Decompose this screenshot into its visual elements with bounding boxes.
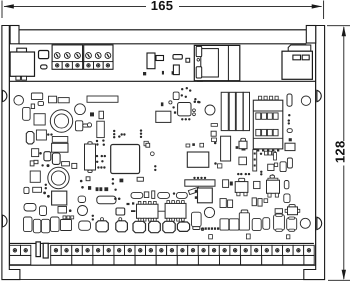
mounting hole H1 [301,96,310,105]
component U8 [285,143,295,150]
capacitor C17 [280,162,286,172]
pad [177,194,179,196]
resistor array RN1 [87,96,118,102]
RJ45 jack outline [194,45,240,80]
transistor Q2 pin [244,192,247,195]
pad [96,140,98,142]
capacitor C51 [40,206,47,216]
terminal group box [262,255,283,264]
left connector block tab [17,48,27,52]
left DIN rail [2,26,20,280]
relay pin [195,190,198,193]
pad [176,200,178,202]
pad [211,227,213,229]
capacitor C9 [287,94,292,106]
pad [88,186,91,190]
mounting hole H2 [300,218,310,228]
pad [101,155,103,157]
component C16 [268,164,274,170]
pad [101,160,103,162]
pad [193,177,195,179]
connector J2 pin 3 [270,96,273,100]
component [218,164,222,168]
pad [217,227,219,229]
transistor Q2 [235,182,248,193]
terminal T9 [114,245,125,255]
diode D1 pin [83,124,91,127]
top strip component square [173,65,179,75]
component [144,192,149,198]
pad [254,165,256,167]
terminal block X1 [52,45,83,69]
pad [104,187,108,191]
toroid inductor L6 inner [51,171,65,185]
pad [289,138,292,141]
dimension 128 extension line top [327,25,350,27]
diode D6 [24,204,36,212]
pad left of RJ45 [186,58,190,62]
pad [230,182,233,186]
dimension 128 extension line bottom [328,279,350,281]
left rail clip notch lower [2,215,7,227]
component R2 [99,111,104,119]
terminal T21 [240,245,251,255]
fuse holder [39,51,49,59]
pad [277,149,279,151]
pad [214,142,217,145]
pad [185,118,187,120]
capacitor C35 flange [193,227,200,230]
right rail clip notch upper [317,90,321,101]
crystal Y1 [85,144,96,170]
terminal square [62,62,72,70]
power connector lip [288,45,311,51]
capacitor C30 [149,221,161,232]
capacitor C37 [220,219,229,230]
pad [288,114,290,116]
wire U9-U10 [158,210,165,212]
terminal square [52,62,62,70]
capacitor C52 [78,206,88,216]
pad [188,118,190,120]
pad [181,88,183,90]
toroid inductor L1 outer [50,110,72,132]
top left tab [10,26,19,44]
terminal group box [241,255,262,264]
wire stub to U9 [131,210,135,212]
dimension 165 arrow left [4,4,14,8]
pad [260,173,262,175]
DIP switch 8 [273,129,278,135]
pad [114,198,117,201]
resistor R4 [137,177,143,181]
transistor Q3 lip [268,178,278,180]
capacitor C1 [14,96,24,106]
pad [237,173,239,175]
pad [69,209,72,212]
test point TP1 [87,123,91,127]
pad [47,195,50,198]
terminal T3 [51,245,62,255]
diode D5 [176,192,187,198]
pad [173,192,175,194]
inductor L2 [34,114,45,125]
transistor Q4 [288,207,298,215]
svg-text:165: 165 [151,0,174,13]
right DIN rail [304,26,325,280]
pad [81,186,84,189]
relay K0 coil [31,93,42,100]
jumper bar 1 [36,242,40,257]
dimension 128 arrow down [342,270,346,280]
transistor Q3 pin [268,193,271,197]
DIP switch 1 [256,113,261,119]
pad [264,199,268,203]
right rail clip notch lower [317,217,322,229]
pad [267,149,269,151]
RJ45 inner opening [201,49,219,77]
pad [99,187,102,191]
capacitor C4 [75,104,86,115]
diode D4 [158,192,170,198]
pad [197,101,200,104]
inductor L3 [36,130,46,140]
component C49 [72,163,77,168]
pad [127,203,130,205]
pad [50,133,52,135]
dimension 165 arrow right [312,4,322,8]
transistor Q1 tab [241,138,246,141]
pad [181,118,183,120]
terminal T7 [93,245,104,255]
pad [100,166,102,168]
terminal T20 [230,245,241,255]
terminal T5 [72,245,83,255]
capacitor C23 [41,219,49,233]
terminal T26 [293,245,304,255]
DIP switch 3 [267,113,272,119]
pin [246,234,250,239]
relay pin [195,196,198,199]
pad above U7 [186,144,190,147]
pad [140,133,142,135]
terminal group box [72,255,93,264]
crystal tab [88,170,92,173]
dimension 128 line [343,27,345,141]
terminal group box [304,255,314,264]
crystal tab [88,142,92,145]
resistor R14 [33,187,42,192]
capacitor C5 [23,107,31,120]
pad [272,151,275,155]
terminal group box [177,255,198,264]
pad [140,129,142,131]
heatsink HS1 fin 4 [243,92,249,130]
terminal T24 [272,245,283,255]
IC U3 [156,111,171,122]
pad [30,161,34,166]
pad [92,218,94,220]
terminal group box [114,255,135,264]
transformer T2 [52,191,67,205]
terminal T19 [219,245,230,255]
RJ45 divider [227,45,229,80]
pad [132,202,134,204]
terminal square [94,62,104,70]
capacitor C42 [263,218,270,230]
pad [204,177,206,179]
pad [245,173,247,175]
pad [96,161,98,163]
RJ45 foot [197,79,202,82]
pad [193,113,196,116]
pin [101,218,104,221]
pad beside C35 [201,228,204,231]
pad [104,155,106,157]
capacitor C43 flange top [276,214,283,216]
capacitor C32 [177,222,189,231]
pad [185,96,187,98]
pad [214,162,217,165]
pad [118,198,121,201]
terminal group box left [10,255,31,264]
top strip pad [143,72,146,75]
capacitor C45 [287,218,297,230]
diode D3 [131,192,143,198]
capacitor C47 [44,152,51,161]
pad [96,187,99,191]
pad [114,189,116,191]
terminal T15 [177,245,188,255]
pad [202,227,204,229]
pad [67,216,70,219]
pad [80,180,83,183]
capacitor C14 [220,199,226,208]
terminal group box [283,255,304,264]
DIP switch 4 [273,113,278,119]
pad [254,153,256,155]
RJ45 latch tab lower [196,67,202,78]
component R9 [258,199,262,207]
capacitor C31 [163,221,175,232]
terminal T4 [61,245,72,255]
component C2 [31,104,34,109]
pad [90,112,94,116]
terminal T17 [198,245,209,255]
terminal group box [93,255,114,264]
terminal T13 [156,245,167,255]
terminal T2 [21,245,31,255]
left connector block feet [16,76,21,80]
component R15 [58,207,67,214]
capacitor C19 [284,181,289,189]
optocoupler U9 [137,201,159,221]
pad [92,215,94,217]
terminal T16 [188,245,199,255]
bottom plate edge [20,279,304,281]
pad [154,165,156,167]
resistor R6 [211,124,217,127]
test point TP2 [169,101,172,104]
pad [39,152,42,155]
capacitor C39 [239,213,249,230]
capacitor C45 flange top [289,217,295,219]
transistor Q4 tab [289,205,295,208]
screw terminal circle [86,53,92,59]
pad left of Q1 [236,146,239,149]
terminal group box [135,255,156,264]
pad [154,169,156,171]
component C3 [38,102,43,106]
dimension 165 line [4,5,146,7]
component C13 [254,181,260,188]
pad [112,178,114,180]
pad [208,227,210,229]
DIP switch 2 [262,113,267,119]
capacitor C43 flange bottom [276,229,283,231]
capacitor C53 [116,208,125,215]
component C10 [211,131,216,136]
svg-text:128: 128 [333,141,348,164]
fuse label [41,65,47,69]
pad [102,139,104,141]
RJ45 latch tab upper [196,46,202,56]
top strip pad [162,71,164,75]
pad [262,149,264,151]
Q4 pin left [285,209,287,212]
DIP switch block S1 [253,100,282,149]
inductor L4 [97,196,116,204]
top strip pad [172,71,175,74]
pad [254,159,256,161]
terminal group box [198,255,219,264]
capacitor C15 [228,200,233,208]
component [152,191,155,199]
toroid inductor L6 outer [48,167,69,188]
top right tab [306,26,315,44]
pad [113,133,115,135]
top strip divider [19,43,306,45]
pad [146,143,150,147]
inductor L5 [30,171,40,182]
pad [71,216,74,219]
pad [96,143,98,145]
pad [172,106,174,108]
pad [112,182,114,184]
pad [47,164,50,167]
jumper bar 2 [43,243,48,258]
pad above U7 [192,143,195,146]
transistor Q3 pin [275,193,278,197]
capacitor C18 [287,158,292,168]
component R8 [252,198,256,206]
screw terminal circle [105,53,111,59]
top strip component small [156,56,164,61]
power connector block [282,51,312,79]
pad [123,133,125,135]
terminal T11 [135,245,146,255]
power connector window 2 [302,55,309,60]
capacitor C25 [61,220,72,231]
pad [205,227,207,229]
terminal group box [220,255,241,264]
capacitor C20 [284,194,290,203]
pad [194,98,196,100]
capacitor C36 [204,207,214,217]
capacitor C35 [192,212,202,227]
pad [97,166,99,168]
pad [63,216,66,219]
diode D1 [76,121,83,131]
capacitor C26 [79,221,91,230]
DIP block dividers [253,110,282,112]
screw terminal circle [95,53,101,59]
left connector block [10,52,34,76]
terminal T12 [146,245,157,255]
capacitor C40 [252,219,261,231]
capacitor C43 [274,215,285,230]
pad [274,163,277,167]
pad [214,227,216,229]
terminal T14 [167,245,178,255]
pad [96,155,98,157]
capacitor C38 [229,219,239,230]
terminal T8 [103,245,114,255]
component U2 [49,96,57,103]
transistor Q2 tab [239,178,245,181]
heatsink HS1 fin 3 [236,92,243,130]
pad [274,153,277,160]
capacitor C6 [97,121,105,137]
relay K1 [198,188,213,203]
pad [248,173,250,175]
capacitor C22 [33,219,41,233]
pad [260,171,262,173]
pad [161,102,164,106]
top strip component vertical [147,53,155,69]
pad [189,89,191,91]
pad [45,184,47,186]
pad [120,179,124,183]
capacitor C11 [221,136,231,161]
connector J2 pin 1 [259,96,262,100]
pad [113,130,115,132]
pad Q0 [86,177,90,181]
component C12 [223,180,229,188]
capacitor C50 [24,187,29,193]
component [34,160,38,163]
diode D7 [78,196,86,202]
capacitor C39 flange [241,210,248,213]
screw terminal circle [75,53,81,59]
capacitor C21 [24,217,33,232]
microcontroller U1 [111,145,140,174]
pad [121,133,123,135]
terminal T6 [82,245,93,255]
transformer T1 [52,143,68,152]
terminal T1 [10,245,21,255]
pad [265,151,268,155]
top strip component rounded [173,55,182,60]
power connector window 1 [293,55,301,60]
terminal T23 [262,245,273,255]
pad [198,101,200,103]
terminal strip top edge [9,242,314,244]
pad [257,149,259,151]
resistor R5 [287,129,292,133]
pad [103,166,105,168]
Q4 pin right [298,209,300,212]
